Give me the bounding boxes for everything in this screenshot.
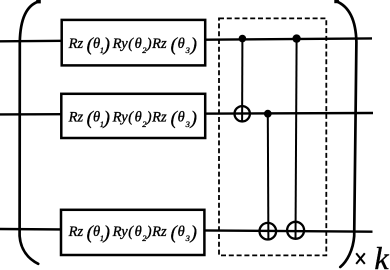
svg-text:): ) [103, 108, 110, 129]
svg-text:3: 3 [185, 119, 190, 129]
svg-text:): ) [190, 222, 197, 243]
svg-text:θ: θ [178, 224, 185, 240]
svg-text:Rz: Rz [68, 224, 84, 240]
svg-text:): ) [146, 224, 152, 240]
svg-text:k: k [374, 240, 389, 270]
svg-text:3: 3 [185, 45, 190, 55]
svg-text:θ: θ [135, 36, 142, 52]
svg-text:): ) [190, 34, 197, 55]
svg-text:Rz: Rz [68, 36, 84, 52]
svg-text:θ: θ [135, 224, 142, 240]
svg-text:θ: θ [135, 110, 142, 126]
svg-text:Ry: Ry [112, 224, 129, 240]
svg-text:): ) [190, 108, 197, 129]
svg-text:θ: θ [178, 110, 185, 126]
svg-text:Rz: Rz [151, 110, 167, 126]
svg-text:): ) [103, 222, 110, 243]
svg-text:θ: θ [178, 36, 185, 52]
svg-text:Ry: Ry [112, 36, 129, 52]
svg-text:3: 3 [185, 233, 190, 243]
svg-text:): ) [146, 36, 152, 52]
svg-text:): ) [146, 110, 152, 126]
svg-text:): ) [103, 34, 110, 55]
svg-text:Rz: Rz [68, 110, 84, 126]
svg-text:Rz: Rz [151, 224, 167, 240]
svg-text:Rz: Rz [151, 36, 167, 52]
svg-text:Ry: Ry [112, 110, 129, 126]
